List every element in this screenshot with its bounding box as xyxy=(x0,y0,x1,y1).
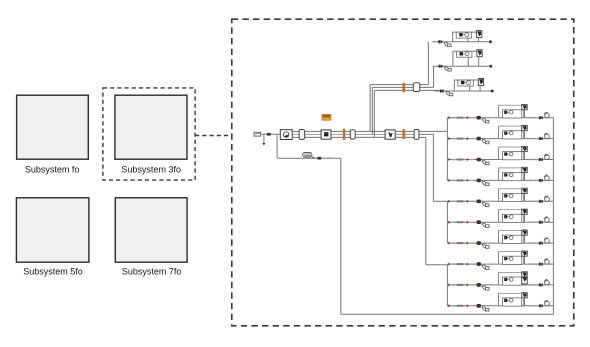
branch group 2 xyxy=(433,65,493,71)
return vertical down xyxy=(340,158,342,314)
svg-text:Subsystem fo: Subsystem fo xyxy=(25,165,80,175)
orange bar 2 xyxy=(402,129,405,139)
riser 3-wire up xyxy=(369,85,371,132)
bus 3-wire port1 to block B xyxy=(305,130,322,132)
upper horizontal 3-wire fan xyxy=(370,84,428,86)
branch group 1 xyxy=(432,40,492,46)
feeder row 3 xyxy=(447,146,553,164)
port P2 xyxy=(350,130,355,139)
port P3 xyxy=(414,130,419,140)
bus 3-wire port2 to block C xyxy=(355,130,385,132)
group feed vertical 1 xyxy=(427,42,429,85)
bus middle wire to drop xyxy=(419,133,433,135)
zoom dashed container box xyxy=(232,19,574,326)
inline blob on source wire xyxy=(267,133,271,136)
feeder row 8 xyxy=(447,251,553,269)
subsystem block 7fo xyxy=(115,198,187,262)
feeder row 5 xyxy=(447,188,553,206)
lower sensor glyph xyxy=(303,152,312,157)
branch group 3 xyxy=(434,90,494,96)
block C xyxy=(385,130,395,139)
return bottom horizontal xyxy=(341,313,554,315)
feeder row 9 extra converter block xyxy=(522,278,527,284)
PS orange logo block xyxy=(322,114,331,120)
orange bar 1 xyxy=(343,129,345,140)
rows bus vertical 5-7 xyxy=(446,201,448,243)
feeder row 4 xyxy=(447,167,553,185)
feeder row 9 xyxy=(447,272,553,290)
svg-text:Subsystem 3fo: Subsystem 3fo xyxy=(121,165,181,175)
bus 3-wire A to port1 xyxy=(292,130,299,132)
svg-text:Subsystem 7fo: Subsystem 7fo xyxy=(122,267,182,277)
lower blob xyxy=(317,157,321,160)
block A electrical source xyxy=(280,130,292,140)
branch drop to lower chain xyxy=(276,134,278,158)
selection dashed box around 3fo xyxy=(103,88,195,180)
drop vertical to rows 8-10 xyxy=(425,137,427,264)
feeder row 6 xyxy=(447,209,553,227)
bus 3-wire B to port2 xyxy=(331,130,350,132)
feeder row 2 xyxy=(447,126,553,144)
wire source to bus xyxy=(261,133,281,135)
bus top wire to rows bus xyxy=(419,130,447,132)
subsystem block 3fo xyxy=(115,95,187,159)
port P1 xyxy=(299,130,305,140)
lower branch wire xyxy=(277,157,341,159)
subsystem block fo xyxy=(17,95,89,159)
drop vertical to rows 5-7 xyxy=(432,134,434,201)
dashed connector line xyxy=(195,135,231,137)
lower gray dash xyxy=(327,157,333,159)
subsystem block 5fo xyxy=(16,198,89,262)
bus bottom wire to drop xyxy=(419,136,426,138)
upper port xyxy=(413,83,420,92)
block B xyxy=(321,130,331,139)
svg-text:Subsystem 5fo: Subsystem 5fo xyxy=(23,267,83,277)
ground drop xyxy=(263,134,265,143)
feeder row 1 xyxy=(447,105,553,123)
feeder row 7 xyxy=(447,230,553,248)
bus 3-wire C to port3 xyxy=(395,130,414,132)
feeder row 10 xyxy=(447,293,553,311)
upper orange bar xyxy=(402,83,405,93)
source block S1 xyxy=(254,132,261,136)
collector vertical right xyxy=(552,118,554,315)
rows bus vertical 8-10 xyxy=(446,265,448,306)
group feed vertical 2 xyxy=(433,66,435,87)
rows bus vertical 1-4 xyxy=(446,118,448,181)
